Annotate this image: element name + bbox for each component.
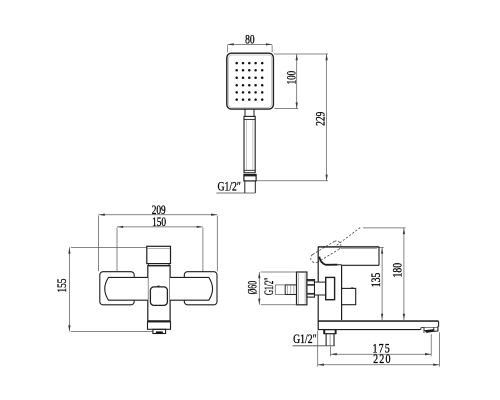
svg-text:G1/2″: G1/2″ [293, 331, 317, 346]
svg-text:229: 229 [312, 112, 327, 126]
svg-text:G1/2″: G1/2″ [261, 278, 276, 296]
svg-text:180: 180 [390, 263, 405, 278]
svg-text:150: 150 [152, 214, 166, 229]
svg-text:135: 135 [368, 273, 383, 288]
svg-text:155: 155 [54, 279, 69, 293]
svg-text:80: 80 [245, 32, 255, 47]
svg-text:Ø60: Ø60 [244, 281, 259, 295]
svg-text:G1/2″: G1/2″ [217, 179, 241, 194]
svg-text:220: 220 [373, 351, 392, 366]
svg-text:100: 100 [284, 71, 299, 85]
